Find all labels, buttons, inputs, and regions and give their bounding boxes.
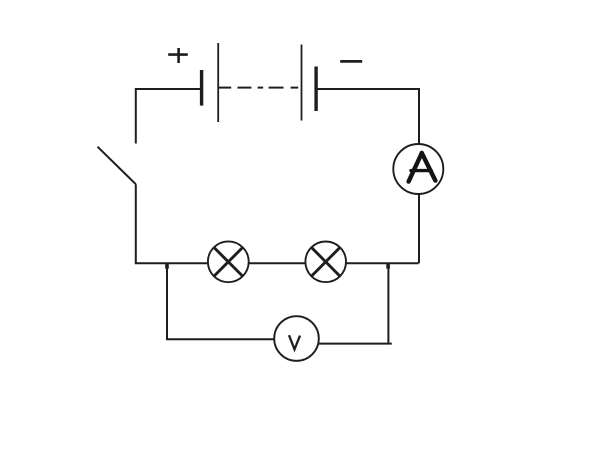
ammeter A1 (393, 144, 443, 194)
wire left branch down to voltmeter loop (166, 263, 168, 339)
wire lamp L2 to right corner (346, 262, 419, 264)
wire right branch down to voltmeter loop (387, 263, 389, 343)
wire left corner to lamp L1 (135, 262, 208, 264)
wire battery to top-right corner (316, 88, 419, 90)
node junction left (dot) (165, 263, 169, 268)
wire lamp L1 to lamp L2 (249, 262, 306, 264)
battery B1 left cell short thick plate (negative plate) (200, 70, 203, 106)
battery B1 left cell long thin plate (positive plate) (217, 43, 219, 122)
switch S1 blade (open) (98, 147, 136, 185)
wire top-left lead to battery (136, 88, 200, 90)
node junction right (dot) (386, 263, 390, 268)
voltmeter V1 (274, 316, 319, 361)
wire voltmeter to bottom-right corner (318, 343, 392, 345)
lamp L1 (208, 241, 249, 282)
battery B1 right cell long thin plate (positive plate) (301, 45, 303, 121)
wire bottom-left to voltmeter (166, 338, 275, 340)
lamp L2 (305, 241, 346, 282)
wire switch to bottom-left corner (135, 184, 137, 263)
dash-dot wire between battery cells (218, 87, 298, 89)
label - (negative terminal) (340, 60, 362, 63)
wire top-right corner down to ammeter (418, 88, 420, 144)
wire ammeter to mid-right corner (418, 194, 420, 263)
label + (positive terminal) (168, 48, 188, 63)
wire top-left corner down to switch (135, 88, 137, 144)
battery B1 right cell short thick plate (negative plate) (314, 67, 317, 112)
